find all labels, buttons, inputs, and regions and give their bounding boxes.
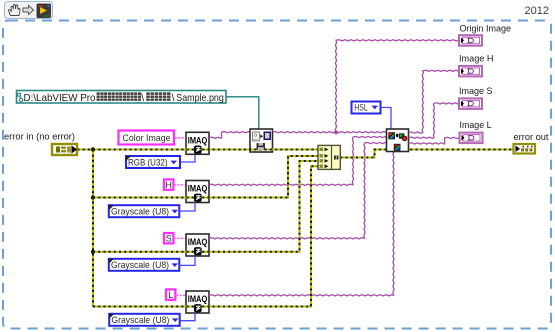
svg-text:Grayscale (U8): Grayscale (U8) xyxy=(111,207,169,217)
label: error out xyxy=(514,132,549,143)
indicator: Image H xyxy=(459,66,482,77)
indicator: Origin Image xyxy=(459,35,482,46)
svg-text:error in (no error): error in (no error) xyxy=(4,132,75,143)
junction: error row S xyxy=(91,250,95,254)
wire: plane L out (purple) xyxy=(409,137,460,144)
wire: Grayscale enum H (blue) xyxy=(179,203,195,212)
enum: Grayscale (U8) row S xyxy=(109,259,180,271)
svg-text:Origin Image: Origin Image xyxy=(460,24,512,35)
wire: error row L xyxy=(93,166,318,306)
svg-text:Sample.png: Sample.png xyxy=(176,93,224,104)
indicator: Image S xyxy=(459,98,482,109)
svg-text:H: H xyxy=(166,180,172,190)
wire: H image out (purple) xyxy=(209,136,387,185)
node: IMAQ Create 1 xyxy=(186,132,209,154)
svg-text:Image H: Image H xyxy=(459,54,494,65)
wire: S name (pink) xyxy=(174,237,186,239)
node: IMAQ Create 4 (L) xyxy=(186,291,209,313)
wire: error vertical branch xyxy=(92,150,94,307)
control: L xyxy=(166,289,175,300)
wire: branch up to Origin Image xyxy=(335,40,459,133)
terminal: error out xyxy=(514,144,536,154)
svg-text:error out: error out xyxy=(514,132,549,143)
hand tool icon xyxy=(9,4,20,15)
node: IMAQ ExtractColorPlanes xyxy=(387,129,409,152)
svg-text:IMAQ: IMAQ xyxy=(188,136,208,146)
wire: merged error out xyxy=(340,150,513,158)
node: IMAQ ReadFile xyxy=(250,129,273,152)
wire: file path (teal) to ReadFile xyxy=(226,97,259,129)
control: H xyxy=(164,179,173,190)
svg-text:Image S: Image S xyxy=(459,86,493,97)
wire: HSL enum (blue) xyxy=(381,108,392,130)
wire: error row S xyxy=(93,161,318,252)
svg-text:Color Image: Color Image xyxy=(123,133,171,144)
wire: S image out (purple) xyxy=(209,142,387,239)
wire: L image out (purple) xyxy=(209,151,394,296)
svg-text:IMAQ: IMAQ xyxy=(188,184,208,194)
junction: error row H xyxy=(91,195,95,199)
wire: node1 image out (purple) to ReadFile xyxy=(209,132,250,139)
svg-text:Image L: Image L xyxy=(460,120,492,131)
node: Merge Errors xyxy=(318,145,340,169)
wire: error main horizontal xyxy=(78,149,319,151)
toolbar panel xyxy=(5,2,53,19)
enum: RGB (U32) xyxy=(126,156,180,168)
svg-text:S: S xyxy=(166,234,172,244)
year label 2012 xyxy=(525,5,549,17)
label: Origin Image xyxy=(460,24,512,35)
terminal: error in xyxy=(52,144,77,155)
wire: L name (pink) xyxy=(176,294,186,296)
LabVIEW app icon xyxy=(37,4,51,18)
enum: Grayscale (U8) row L xyxy=(109,314,180,326)
label: Image S xyxy=(459,86,493,97)
svg-text:IMAQ: IMAQ xyxy=(188,294,208,304)
control: S xyxy=(164,233,173,244)
wire: ReadFile image out (purple) to ExtractColorPlanes xyxy=(273,132,387,133)
svg-text:L: L xyxy=(168,290,173,300)
indicator: Image L xyxy=(460,133,483,144)
junction: error main xyxy=(91,147,95,151)
wire: RGB enum (blue) to node1 xyxy=(180,154,195,162)
junction: purple branch xyxy=(334,130,338,134)
svg-text:\: \ xyxy=(141,93,144,104)
svg-text:Grayscale (U8): Grayscale (U8) xyxy=(111,315,169,325)
svg-text:D:\LabVIEW Pro: D:\LabVIEW Pro xyxy=(24,93,96,104)
enum: HSL xyxy=(352,102,381,114)
node: IMAQ Create 2 (H) xyxy=(186,181,209,203)
step-into arrow icon xyxy=(23,6,34,15)
wire: H name (pink) xyxy=(174,184,186,186)
wire: plane S out (purple) xyxy=(409,103,460,139)
svg-text:IMAQ: IMAQ xyxy=(188,237,208,247)
wire: Grayscale enum S (blue) xyxy=(179,256,195,265)
wire: Color Image name (pink) xyxy=(175,137,187,139)
svg-text:RGB (U32): RGB (U32) xyxy=(128,157,168,167)
wire: error row H xyxy=(93,156,318,198)
label: Image H xyxy=(459,54,494,65)
svg-text:\: \ xyxy=(172,93,175,104)
icon overlays (create-node glyphs drawn over error wires) xyxy=(194,143,265,312)
control: Color Image xyxy=(119,131,175,145)
svg-text:HSL: HSL xyxy=(354,103,368,113)
svg-text:Grayscale (U8): Grayscale (U8) xyxy=(111,260,169,270)
node: IMAQ Create 3 (S) xyxy=(186,234,209,256)
svg-text:2012: 2012 xyxy=(525,5,549,17)
wire: Grayscale enum L (blue) xyxy=(180,313,195,321)
label: Image L xyxy=(460,120,492,131)
path constant: D:\LabVIEW Pro...\Sample.png xyxy=(17,91,227,104)
wire: plane H out (purple) xyxy=(409,70,460,133)
enum: Grayscale (U8) row H xyxy=(109,205,180,217)
label: error in (no error) xyxy=(4,132,75,143)
